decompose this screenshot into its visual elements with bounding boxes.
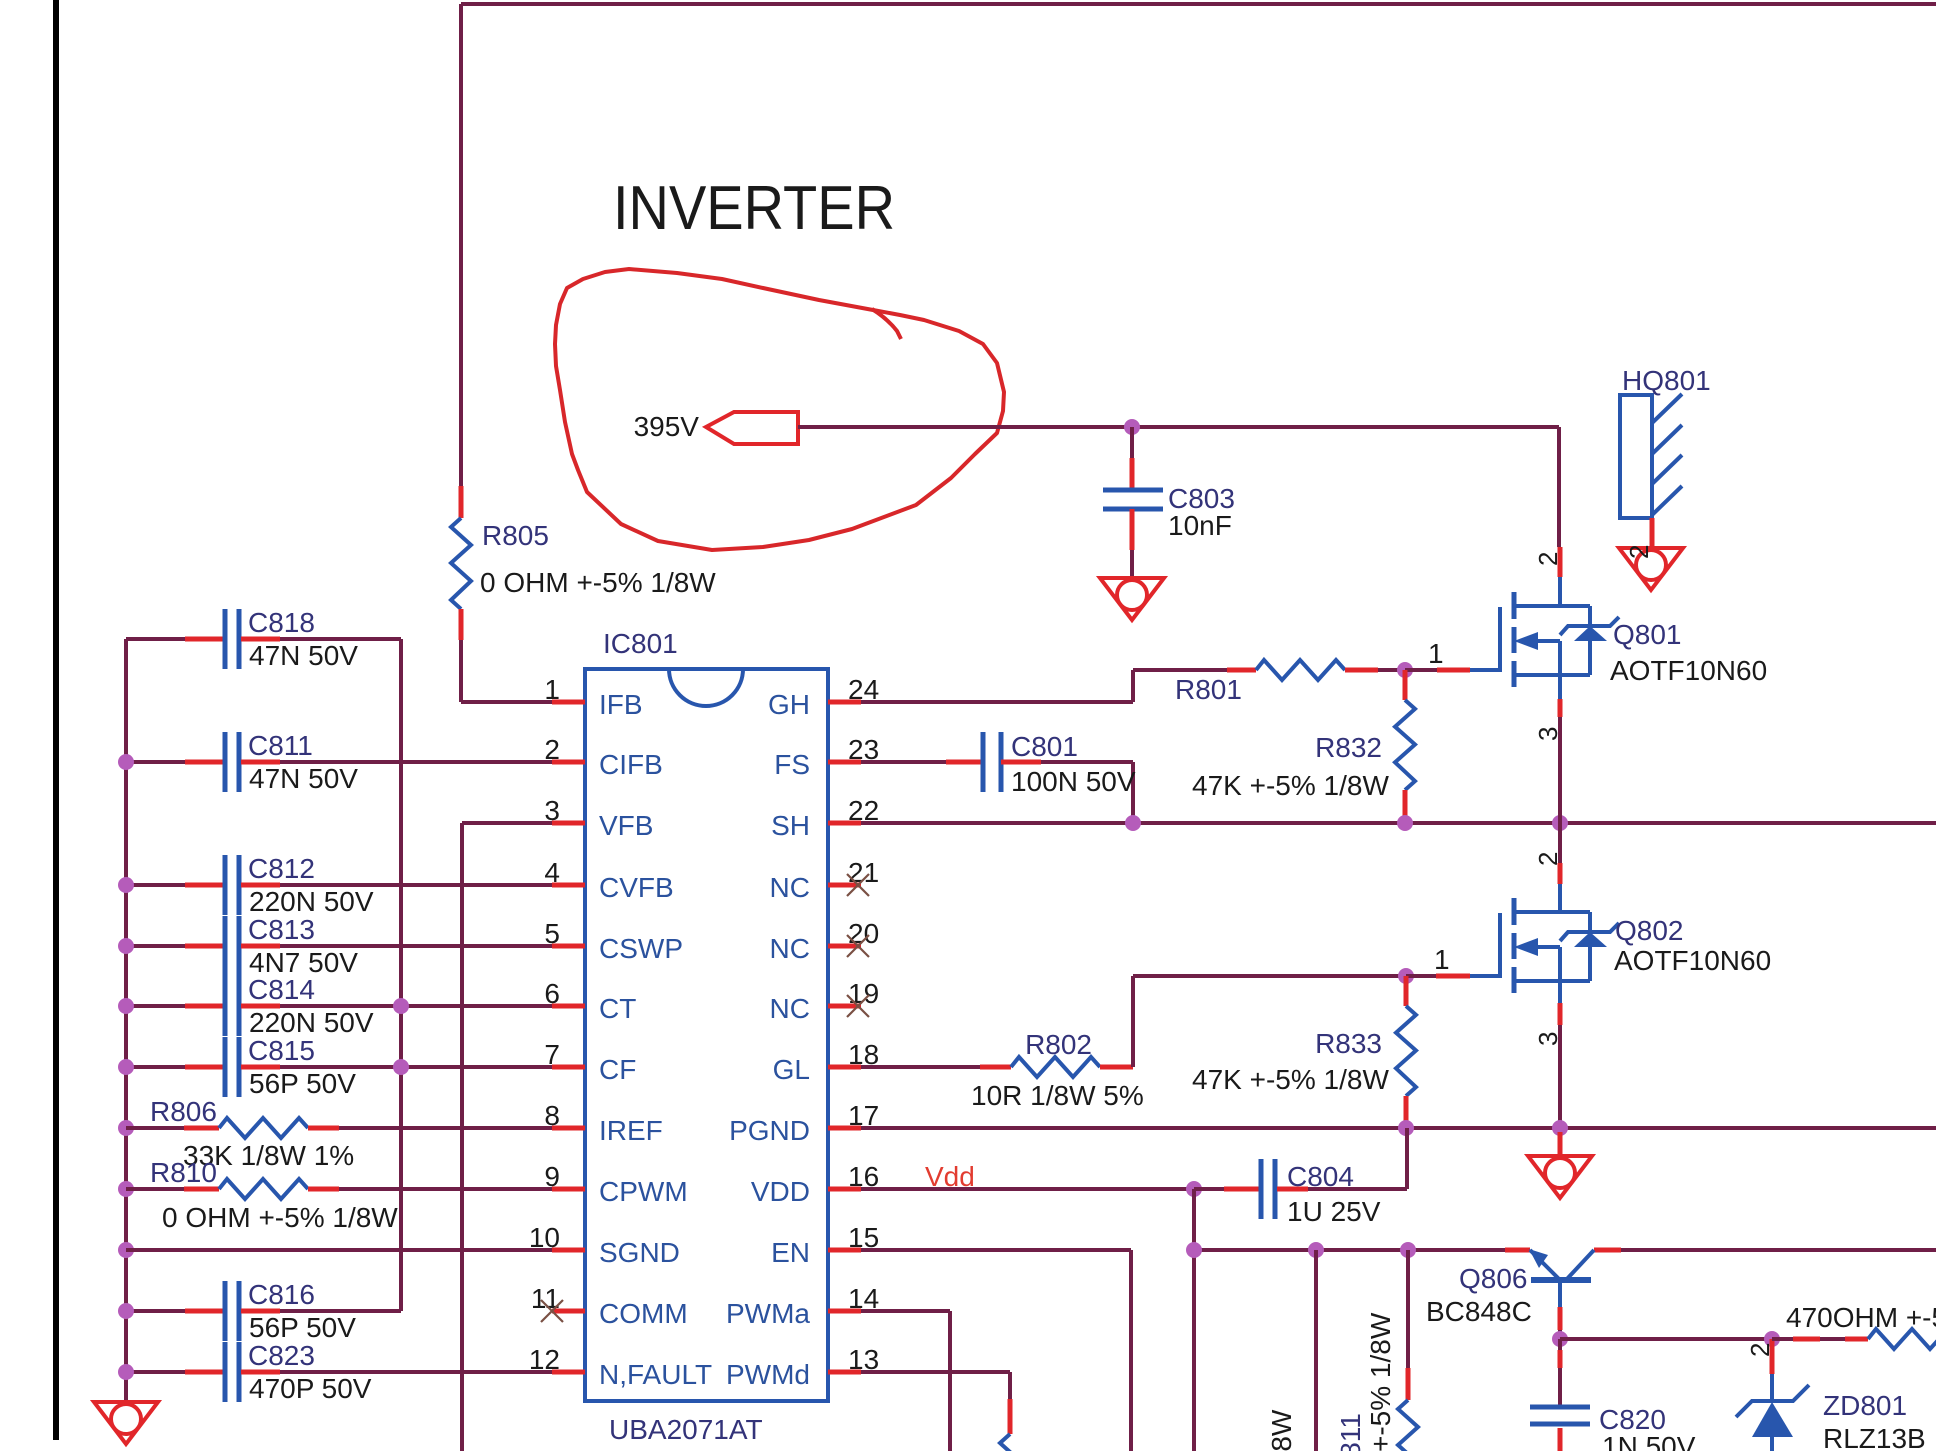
transistor Q801 gate — [1470, 607, 1500, 670]
capacitor C823 — [126, 1370, 185, 1374]
connector HQ801 — [1620, 395, 1652, 518]
wire EN pin 15 — [861, 1248, 1131, 1252]
svg-text:CF: CF — [599, 1054, 636, 1085]
junction SH/C801 — [1125, 815, 1141, 831]
svg-text:CSWP: CSWP — [599, 933, 683, 964]
no-connect X pin 20 — [847, 935, 869, 957]
svg-text:C814: C814 — [248, 974, 315, 1005]
wire net 395V — [798, 425, 1559, 429]
svg-text:C812: C812 — [248, 853, 315, 884]
IC801 pin 1 stub — [552, 700, 585, 705]
resistor R805 — [451, 518, 471, 609]
junction SH/Q801 source — [1552, 815, 1568, 831]
svg-text:R833: R833 — [1315, 1028, 1382, 1059]
svg-text:PGND: PGND — [729, 1115, 810, 1146]
Q802 drain bar — [1514, 910, 1590, 914]
svg-text:1N 50V: 1N 50V — [1602, 1431, 1696, 1451]
junction SH/R832 — [1397, 815, 1413, 831]
IC801 pin 4 stub — [552, 883, 585, 888]
svg-text:1U 25V: 1U 25V — [1287, 1196, 1381, 1227]
wire EN-net horizontal — [1194, 1248, 1505, 1252]
resistor R810 — [126, 1187, 184, 1191]
capacitor C801 — [981, 732, 986, 792]
svg-text:100N 50V: 100N 50V — [1011, 766, 1136, 797]
IC801 pin 11 stub — [552, 1309, 585, 1314]
junction EN branch 2 — [1400, 1242, 1416, 1258]
ground (left bus) — [94, 1402, 158, 1444]
svg-text:2: 2 — [1533, 852, 1563, 866]
svg-text:CIFB: CIFB — [599, 749, 663, 780]
IC801 pin 17 stub — [828, 1126, 861, 1131]
capacitor C818 — [126, 637, 185, 641]
no-connect X pin 21 — [847, 874, 869, 896]
HQ801 pin 2 lead — [1650, 518, 1655, 548]
zener diode ZD801 RLZ13B — [1770, 1339, 1775, 1374]
svg-text:VFB: VFB — [599, 810, 653, 841]
IC801 pin 24 stub — [828, 700, 861, 705]
op-amp / controller IC801 body — [585, 669, 828, 1401]
svg-text:20: 20 — [848, 918, 879, 949]
svg-text:10R 1/8W 5%: 10R 1/8W 5% — [971, 1080, 1144, 1111]
svg-text:N,FAULT: N,FAULT — [599, 1359, 712, 1390]
svg-text:BC848C: BC848C — [1426, 1296, 1532, 1327]
Q802 body diode — [1588, 912, 1592, 981]
capacitor C812 — [126, 883, 185, 887]
svg-text:47K +-5% 1/8W: 47K +-5% 1/8W — [1192, 1064, 1389, 1095]
junction dots on left bus — [118, 754, 134, 770]
Q801 body diode — [1588, 606, 1592, 675]
capacitor C820 — [1558, 1339, 1562, 1350]
svg-text:EN: EN — [771, 1237, 810, 1268]
svg-text:CT: CT — [599, 993, 636, 1024]
svg-text:19: 19 — [848, 978, 879, 1009]
resistor R801 — [1256, 660, 1345, 680]
resistor R832 — [1403, 670, 1408, 700]
svg-text:CPWM: CPWM — [599, 1176, 688, 1207]
sheet border bar (left black) — [53, 0, 59, 1440]
IC801 pin 14 stub — [828, 1309, 861, 1314]
svg-text:SH: SH — [771, 810, 810, 841]
svg-text:470P 50V: 470P 50V — [249, 1373, 372, 1404]
svg-text:3: 3 — [1533, 727, 1563, 741]
capacitor C803 — [1130, 427, 1134, 458]
capacitor C814 — [126, 1004, 185, 1008]
transistor Q806 BC848C — [1530, 1250, 1560, 1280]
svg-text:1: 1 — [1434, 944, 1450, 975]
svg-text:R806: R806 — [150, 1096, 217, 1127]
capacitor C816 — [126, 1309, 185, 1313]
wire VDD down — [1192, 1189, 1196, 1451]
junction PGND/R833 — [1398, 1120, 1414, 1136]
ground (PGND) — [1558, 1132, 1563, 1156]
svg-text:R832: R832 — [1315, 732, 1382, 763]
svg-text:R801: R801 — [1175, 674, 1242, 705]
svg-text:INVERTER: INVERTER — [613, 174, 895, 243]
IC801 pin 15 stub — [828, 1248, 861, 1253]
vertical net wire VFB — [460, 823, 464, 1451]
svg-text:C813: C813 — [248, 914, 315, 945]
junction 395V/C803 — [1124, 419, 1140, 435]
svg-text:47K +-5% 1/8W: 47K +-5% 1/8W — [1192, 770, 1389, 801]
wire PWMa pin 14 — [861, 1309, 950, 1313]
wire SGND (pin 10) — [126, 1248, 552, 1252]
resistor R806 — [126, 1126, 184, 1130]
junction EN/VDD — [1186, 1242, 1202, 1258]
svg-text:IFB: IFB — [599, 689, 643, 720]
svg-text:+-5% 1/8W: +-5% 1/8W — [1365, 1312, 1396, 1451]
ground (HQ801) — [1619, 548, 1683, 590]
IC801 pin 21 stub — [828, 883, 861, 888]
wire branch down x1316 — [1314, 1250, 1318, 1451]
svg-text:C811: C811 — [248, 730, 313, 761]
svg-text:VDD: VDD — [751, 1176, 810, 1207]
Q801 source lead — [1558, 675, 1562, 699]
IC801 pin 20 stub — [828, 944, 861, 949]
wire to Q801 gate — [1405, 668, 1437, 672]
svg-text:Q801: Q801 — [1613, 619, 1682, 650]
svg-text:C815: C815 — [248, 1035, 315, 1066]
IC801 pin 16 stub — [828, 1187, 861, 1192]
resistor R812 (partial, bottom edge) — [1406, 1250, 1410, 1368]
svg-text:2: 2 — [1745, 1343, 1775, 1357]
Q802 source lead — [1558, 981, 1562, 1003]
wire PWMd pin 13 / resistor partial — [861, 1370, 1010, 1374]
junction Q806 base — [1552, 1331, 1568, 1347]
svg-text:1: 1 — [544, 674, 560, 705]
svg-text:IC801: IC801 — [603, 628, 678, 659]
svg-text:C804: C804 — [1287, 1161, 1354, 1192]
junction PGND/Q802 source — [1552, 1120, 1568, 1136]
svg-text:2: 2 — [1624, 545, 1654, 559]
svg-text:HQ801: HQ801 — [1622, 365, 1711, 396]
svg-text:56P 50V: 56P 50V — [249, 1312, 356, 1343]
IC801 pin 10 stub — [552, 1248, 585, 1253]
Q801 arrow — [1538, 639, 1560, 643]
Q801 drain lead — [1558, 547, 1563, 577]
wire GH pin 24 — [861, 700, 1133, 704]
hand-drawn red circle annotation — [555, 269, 1004, 550]
svg-text:RLZ13B: RLZ13B — [1823, 1423, 1926, 1451]
svg-text:0 OHM +-5% 1/8W: 0 OHM +-5% 1/8W — [480, 567, 716, 598]
svg-text:R802: R802 — [1025, 1029, 1092, 1060]
svg-text:470OHM +-5%: 470OHM +-5% — [1786, 1302, 1936, 1333]
svg-text:R810: R810 — [150, 1157, 217, 1188]
svg-text:AOTF10N60: AOTF10N60 — [1614, 945, 1771, 976]
Q802 source bar — [1514, 979, 1590, 983]
wire to Q802 gate — [1406, 974, 1436, 978]
svg-text:395V: 395V — [634, 411, 700, 442]
Q801 channel — [1512, 592, 1517, 687]
svg-text:1/8W: 1/8W — [1266, 1409, 1297, 1451]
svg-text:CVFB: CVFB — [599, 872, 674, 903]
IC801 pin 9 stub — [552, 1187, 585, 1192]
svg-text:C801: C801 — [1011, 731, 1078, 762]
svg-text:47N 50V: 47N 50V — [249, 763, 358, 794]
wire base row — [1560, 1337, 1772, 1341]
svg-text:PWMa: PWMa — [726, 1298, 810, 1329]
Q801 internal source link — [1558, 641, 1562, 675]
junction gate Q802 — [1398, 968, 1414, 984]
svg-text:56P 50V: 56P 50V — [249, 1068, 356, 1099]
vertical net wire (cap right-side bus) — [399, 639, 403, 1311]
IC801 pin 7 stub — [552, 1065, 585, 1070]
Q802 drain lead — [1558, 823, 1562, 863]
top border wire — [461, 2, 1936, 6]
svg-text:11: 11 — [531, 1283, 560, 1314]
svg-text:2: 2 — [1533, 552, 1563, 566]
svg-text:C818: C818 — [248, 607, 315, 638]
IC801 pin 12 stub — [552, 1370, 585, 1375]
svg-text:0 OHM +-5% 1/8W: 0 OHM +-5% 1/8W — [162, 1202, 398, 1233]
wire SH pin 22 net — [861, 821, 1936, 825]
svg-text:220N 50V: 220N 50V — [249, 1007, 374, 1038]
IC801 pin 22 stub — [828, 821, 861, 826]
IC801 pin 6 stub — [552, 1004, 585, 1009]
Q802 arrow — [1538, 945, 1560, 949]
capacitor C813 — [126, 944, 185, 948]
svg-text:AOTF10N60: AOTF10N60 — [1610, 655, 1767, 686]
resistor R802 — [1011, 1057, 1100, 1077]
svg-text:R805: R805 — [482, 520, 549, 551]
junction dot C815/right bus — [393, 1059, 409, 1075]
junction gate Q801 — [1397, 662, 1413, 678]
svg-text:GL: GL — [773, 1054, 810, 1085]
svg-text:PWMd: PWMd — [726, 1359, 810, 1390]
capacitor C804 — [1259, 1159, 1264, 1219]
IC801 pin 18 stub — [828, 1065, 861, 1070]
no-connect X pin 19 — [847, 995, 869, 1017]
svg-text:1: 1 — [1428, 638, 1444, 669]
Q802 internal source link — [1558, 947, 1562, 981]
transistor Q802 gate — [1470, 913, 1500, 976]
svg-text:UBA2071AT: UBA2071AT — [609, 1414, 763, 1445]
wire FS pin 23 / C801 — [861, 760, 946, 764]
junction VDD — [1186, 1181, 1202, 1197]
svg-text:GH: GH — [768, 689, 810, 720]
junction EN branch 1 — [1308, 1242, 1324, 1258]
svg-text:R811: R811 — [1335, 1413, 1366, 1451]
IC801 pin 23 stub — [828, 760, 861, 765]
wire R805 to pin 1 — [459, 609, 464, 640]
IC801 pin 8 stub — [552, 1126, 585, 1131]
svg-text:SGND: SGND — [599, 1237, 680, 1268]
svg-text:ZD801: ZD801 — [1823, 1390, 1907, 1421]
svg-text:COMM: COMM — [599, 1298, 688, 1329]
resistor R833 — [1404, 976, 1409, 1006]
svg-text:Q806: Q806 — [1459, 1263, 1528, 1294]
junction ZD801 — [1764, 1331, 1780, 1347]
svg-text:21: 21 — [848, 857, 879, 888]
wire PGND pin 17 net — [861, 1126, 1936, 1130]
svg-text:47N 50V: 47N 50V — [249, 640, 358, 671]
left vertical bus wire — [124, 639, 128, 1402]
svg-text:3: 3 — [1533, 1032, 1563, 1046]
wire GL pin 18 / R802 — [861, 1065, 980, 1069]
Q801 source bar — [1514, 673, 1590, 677]
svg-text:NC: NC — [770, 993, 810, 1024]
svg-text:10nF: 10nF — [1168, 510, 1232, 541]
hand-drawn hook stroke — [872, 309, 901, 339]
svg-text:Q802: Q802 — [1615, 915, 1684, 946]
svg-text:NC: NC — [770, 933, 810, 964]
Q801 drain bar — [1514, 604, 1590, 608]
IC801 pin 19 stub — [828, 1004, 861, 1009]
IC801 pin 5 stub — [552, 944, 585, 949]
ground (C803) — [1100, 578, 1164, 620]
IC801 pin 2 stub — [552, 760, 585, 765]
svg-text:FS: FS — [774, 749, 810, 780]
resistor 470OHM (right edge) — [1772, 1337, 1793, 1341]
wire R805 net (to top border) — [459, 4, 463, 486]
IC801 pin 13 stub — [828, 1370, 861, 1375]
junction dot C814/right bus — [393, 998, 409, 1014]
capacitor C815 — [126, 1065, 185, 1069]
svg-text:C823: C823 — [248, 1340, 315, 1371]
svg-text:C816: C816 — [248, 1279, 315, 1310]
IC801 pin 3 stub — [552, 821, 585, 826]
Q802 channel — [1512, 898, 1517, 993]
no-connect X pin 11 — [541, 1300, 563, 1322]
svg-text:IREF: IREF — [599, 1115, 663, 1146]
power port 395V — [706, 412, 798, 444]
capacitor C811 — [126, 760, 185, 764]
svg-text:220N 50V: 220N 50V — [249, 886, 374, 917]
svg-text:NC: NC — [770, 872, 810, 903]
